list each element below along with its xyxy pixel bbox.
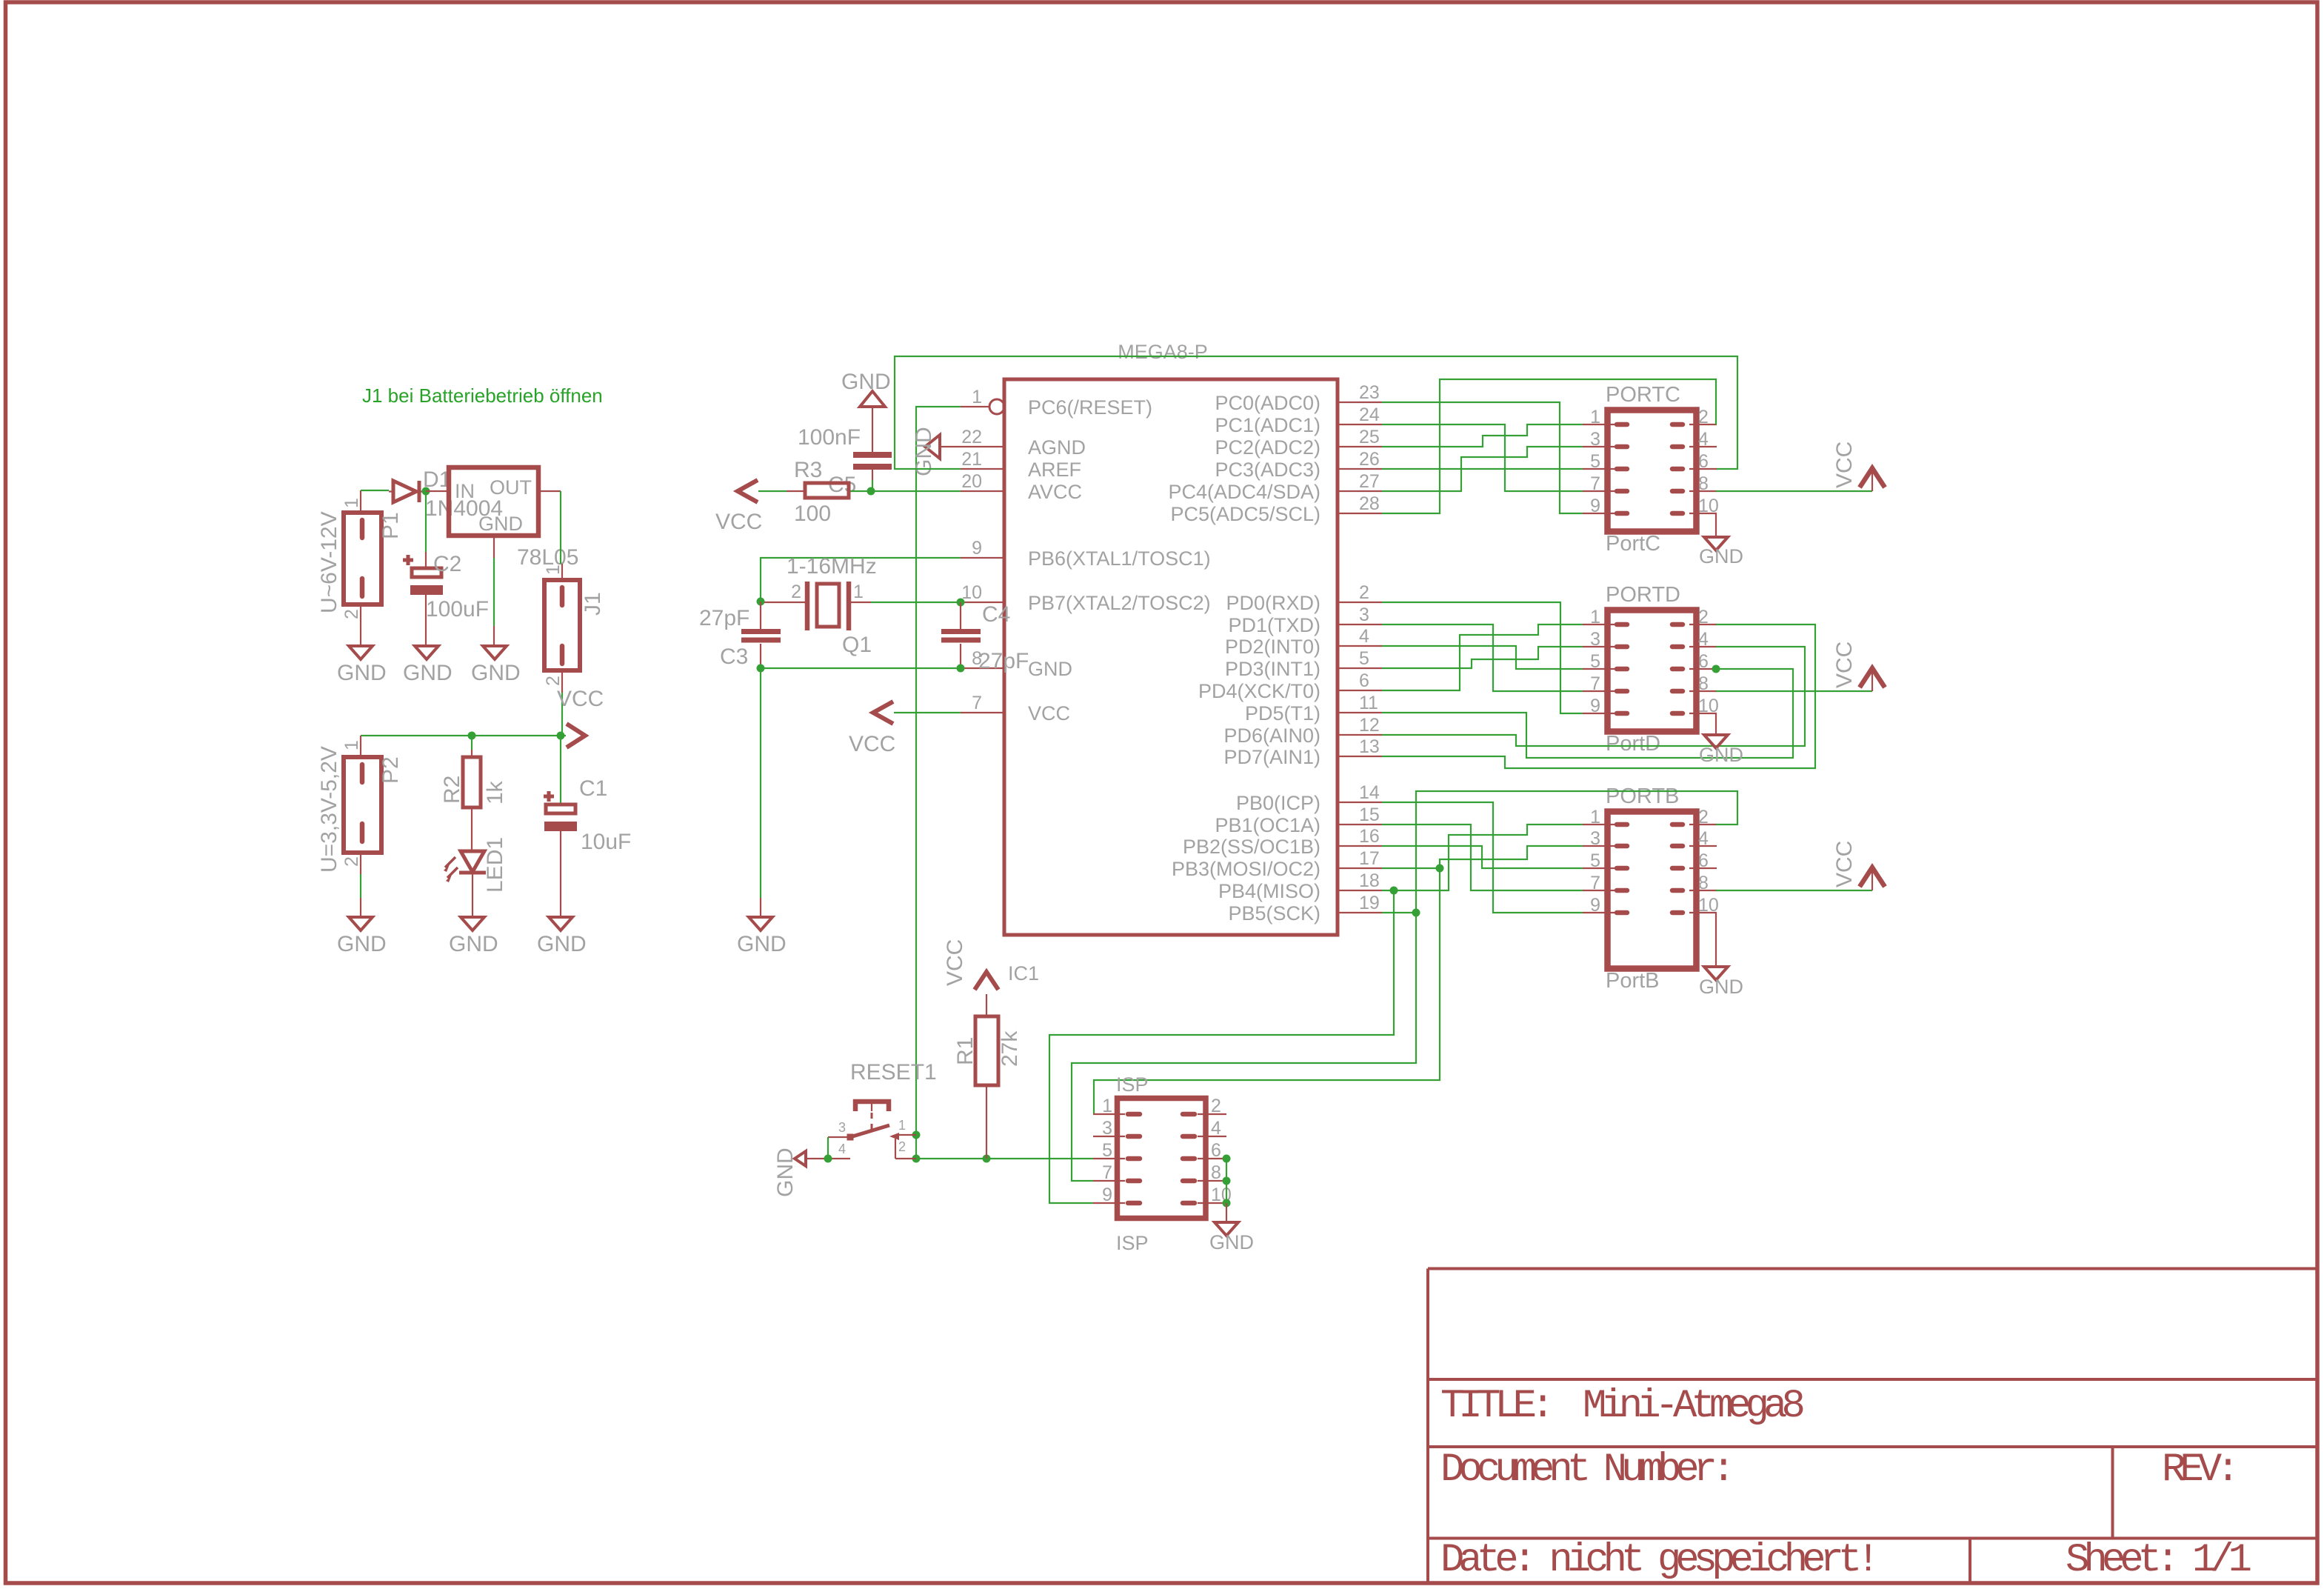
wire PORTC pin8 to VCC — [1716, 490, 1872, 492]
svg-text:7: 7 — [972, 693, 982, 713]
svg-text:PD3(INT1): PD3(INT1) — [1225, 658, 1320, 680]
wire PB5 pin19 SCK to PORTB pin2 — [1382, 791, 1737, 913]
PORTC pin 2 — [1672, 407, 1717, 427]
svg-text:AREF: AREF — [1028, 459, 1081, 481]
wire PD3 pin5 to PORTD pin3 — [1382, 647, 1583, 668]
svg-text:27: 27 — [1359, 471, 1380, 492]
svg-text:4: 4 — [1359, 626, 1369, 647]
svg-text:GND: GND — [337, 661, 387, 685]
connector PORTC body — [1608, 410, 1697, 532]
IC pin 11 PD5(T1) — [1245, 693, 1382, 724]
svg-text:ISP: ISP — [1116, 1232, 1149, 1254]
wire PD1 pin3 to PORTD pin7 — [1382, 624, 1583, 691]
svg-text:26: 26 — [1359, 449, 1380, 470]
svg-text:4: 4 — [1211, 1118, 1221, 1139]
svg-text:TITLE:: TITLE: — [1440, 1384, 1549, 1429]
svg-text:9: 9 — [1590, 696, 1600, 716]
IC pin 28 PC5(ADC5/SCL) — [1170, 493, 1382, 525]
ISP pin 2 — [1183, 1096, 1226, 1116]
svg-text:17: 17 — [1359, 848, 1380, 869]
PORTC pin 5 — [1583, 451, 1627, 472]
IC pin 21 AREF — [961, 449, 1081, 481]
ISP pin 9 — [1093, 1185, 1140, 1205]
IC pin 16 PB2(SS/OC1B) — [1183, 826, 1382, 858]
IC pin 5 PD3(INT1) — [1225, 648, 1382, 680]
junction node crystal pin2 C3 — [757, 598, 765, 606]
svg-text:10: 10 — [1698, 895, 1719, 916]
svg-text:12: 12 — [1359, 715, 1380, 736]
junction node AVCC C5 — [867, 487, 875, 496]
ground symbol GND above C5 — [841, 370, 891, 452]
svg-text:2: 2 — [1698, 807, 1709, 827]
svg-text:VCC: VCC — [943, 939, 967, 986]
IC pin 17 PB3(MOSI/OC2) — [1172, 848, 1382, 880]
PORTB pin 7 — [1583, 873, 1627, 893]
jumper J1 — [543, 564, 605, 693]
junction node reset bottom — [912, 1155, 921, 1163]
capacitor C3 27pF — [699, 602, 781, 669]
svg-text:100uF: 100uF — [426, 597, 489, 622]
svg-text:R1: R1 — [953, 1037, 978, 1065]
connector P2 — [317, 736, 403, 874]
junction node reset at switch pin1 — [912, 1131, 921, 1139]
svg-text:P2: P2 — [378, 756, 403, 784]
svg-text:27pF: 27pF — [699, 606, 749, 630]
svg-text:6: 6 — [1698, 451, 1709, 472]
svg-text:27k: 27k — [998, 1030, 1022, 1067]
svg-text:IN: IN — [455, 480, 475, 502]
IC pin 14 PB0(ICP) — [1236, 782, 1382, 814]
junction node C3 GND — [757, 664, 765, 673]
ground symbol GND at 78L05 — [471, 558, 521, 685]
ISP pin 3 — [1093, 1118, 1140, 1139]
IC U1 MEGA8-P body — [1004, 379, 1338, 935]
svg-text:J1: J1 — [581, 592, 605, 616]
svg-text:P1: P1 — [378, 512, 403, 539]
PORTC pin 6 — [1672, 451, 1717, 472]
ground symbol GND at PORTD pin10 — [1699, 713, 1743, 766]
IC pin 27 PC4(ADC4/SDA) — [1168, 471, 1382, 503]
svg-text:4: 4 — [1698, 429, 1709, 450]
ground symbol GND at AGND pin22 — [912, 427, 961, 476]
svg-text:5: 5 — [1590, 651, 1600, 672]
wire PC4 pin27 to PORTC pin3 — [1382, 447, 1583, 491]
ISP pin 10 — [1183, 1185, 1232, 1205]
resistor R2 1k — [440, 736, 507, 851]
svg-text:PD5(T1): PD5(T1) — [1245, 702, 1320, 724]
svg-text:8: 8 — [1698, 473, 1709, 494]
svg-text:5: 5 — [1359, 648, 1369, 669]
capacitor C5 100nF — [798, 425, 892, 497]
svg-text:OUT: OUT — [490, 476, 532, 499]
svg-text:PB6(XTAL1/TOSC1): PB6(XTAL1/TOSC1) — [1028, 547, 1211, 570]
PORTB pin 8 — [1672, 873, 1717, 893]
junction node R2 branch — [468, 732, 476, 740]
svg-text:11: 11 — [1359, 693, 1378, 713]
svg-text:1: 1 — [1590, 807, 1600, 827]
ground symbol GND at P2 — [337, 874, 387, 956]
svg-text:GND: GND — [337, 932, 387, 956]
svg-text:PC0(ADC0): PC0(ADC0) — [1215, 392, 1320, 414]
wire PB2 pin16 to PORTB pin5 — [1382, 846, 1583, 868]
supply arrow VCC at PORTB — [1871, 868, 1873, 890]
svg-text:PORTC: PORTC — [1606, 383, 1680, 407]
wire GND net C3 C4 IC pin8 — [761, 667, 961, 669]
PORTB pin 6 — [1672, 850, 1717, 871]
junction node SCK — [1412, 909, 1420, 917]
svg-text:PB4(MISO): PB4(MISO) — [1218, 880, 1320, 902]
IC pin 8 GND — [961, 648, 1072, 680]
PORTC pin 10 — [1672, 496, 1719, 516]
PORTC pin 9 — [1583, 496, 1627, 516]
svg-text:VCC: VCC — [1832, 442, 1857, 488]
PORTD pin 3 — [1583, 629, 1627, 650]
svg-text:Date: nicht gespeichert!: Date: nicht gespeichert! — [1440, 1538, 1874, 1583]
svg-text:7: 7 — [1590, 873, 1600, 893]
switch RESET1 — [828, 1060, 937, 1159]
svg-text:PORTB: PORTB — [1606, 784, 1679, 808]
svg-text:GND: GND — [1699, 976, 1743, 998]
wire AVCC pin20 to R3 — [849, 490, 961, 492]
svg-text:Q1: Q1 — [842, 633, 872, 657]
PORTC pin 8 — [1672, 473, 1717, 494]
ground symbol GND at ISP — [1209, 1203, 1254, 1253]
wire ISP pins 6 8 10 GND — [1226, 1159, 1227, 1203]
svg-text:5: 5 — [1590, 850, 1600, 871]
PORTB pin 3 — [1583, 828, 1627, 849]
svg-text:PC1(ADC1): PC1(ADC1) — [1215, 414, 1320, 436]
ground symbol GND below C3 — [737, 898, 787, 956]
svg-text:GND: GND — [737, 932, 787, 956]
svg-text:4: 4 — [1698, 629, 1709, 650]
resistor R3 100 — [794, 458, 849, 526]
svg-text:3: 3 — [1102, 1118, 1112, 1139]
svg-text:PB1(OC1A): PB1(OC1A) — [1215, 814, 1320, 836]
svg-text:20: 20 — [961, 471, 982, 492]
svg-text:C4: C4 — [982, 602, 1010, 627]
svg-text:C1: C1 — [579, 776, 607, 801]
wire PORTD pin8 to VCC — [1716, 690, 1872, 692]
ground symbol GND at PORTC pin10 — [1699, 513, 1743, 567]
PORTD pin 1 — [1583, 607, 1627, 627]
svg-text:Sheet: 1/1: Sheet: 1/1 — [2066, 1538, 2251, 1583]
svg-text:1: 1 — [543, 564, 564, 575]
svg-text:6: 6 — [1698, 651, 1709, 672]
ISP pin 1 — [1093, 1096, 1140, 1116]
IC pin 15 PB1(OC1A) — [1215, 805, 1382, 836]
svg-text:5: 5 — [1590, 451, 1600, 472]
wire VCC bus P2 R2 C1 — [361, 735, 566, 736]
svg-text:GND: GND — [841, 370, 891, 394]
svg-text:4: 4 — [838, 1142, 846, 1156]
wire PC3 pin26 to PORTC pin5 — [1382, 468, 1583, 470]
svg-text:8: 8 — [1698, 873, 1709, 893]
svg-text:2: 2 — [543, 676, 564, 686]
ISP pin 6 — [1183, 1140, 1226, 1161]
svg-text:U=3,3V-5,2V: U=3,3V-5,2V — [317, 746, 341, 873]
wire PC5 pin28 to PORTC pin2 — [1382, 379, 1716, 513]
ground symbol GND at RESET1 — [773, 1147, 806, 1197]
svg-text:GND: GND — [773, 1147, 798, 1197]
svg-text:R2: R2 — [440, 776, 464, 804]
svg-text:6: 6 — [1698, 850, 1709, 871]
wire PC1 pin24 to PORTC pin7 — [1382, 424, 1583, 491]
PORTB pin 1 — [1583, 807, 1627, 827]
svg-text:C2: C2 — [433, 552, 461, 576]
svg-text:GND: GND — [1028, 658, 1072, 680]
svg-text:1: 1 — [853, 582, 864, 602]
wire PC0 pin23 to PORTC pin9 — [1382, 402, 1583, 513]
IC pin 6 PD4(XCK/T0) — [1198, 670, 1382, 702]
svg-text:LED1: LED1 — [483, 837, 507, 893]
junction node reset at R1 — [983, 1155, 991, 1163]
svg-text:PD0(RXD): PD0(RXD) — [1226, 592, 1320, 614]
svg-text:16: 16 — [1359, 826, 1380, 847]
svg-text:21: 21 — [961, 449, 982, 470]
wire switch GND — [806, 1158, 828, 1159]
IC pin 7 VCC — [961, 693, 1070, 724]
svg-text:7: 7 — [1102, 1162, 1112, 1183]
svg-text:C3: C3 — [720, 644, 748, 669]
supply arrow VCC at PORTD — [1871, 669, 1873, 691]
IC pin 3 PD1(TXD) — [1228, 604, 1382, 636]
IC pin 1 PC6(/RESET) — [961, 387, 1152, 419]
IC pin 12 PD6(AIN0) — [1223, 715, 1382, 747]
svg-text:PD7(AIN1): PD7(AIN1) — [1223, 746, 1320, 768]
supply arrow VCC right — [567, 724, 585, 747]
ground symbol GND at C2 — [403, 626, 453, 685]
capacitor C1 10uF — [544, 736, 631, 898]
PORTC pin 3 — [1583, 429, 1627, 450]
PORTB pin 5 — [1583, 850, 1627, 871]
svg-text:22: 22 — [961, 427, 982, 447]
svg-text:PC4(ADC4/SDA): PC4(ADC4/SDA) — [1168, 481, 1320, 503]
IC pin 4 PD2(INT0) — [1225, 626, 1382, 658]
svg-text:PB3(MOSI/OC2): PB3(MOSI/OC2) — [1172, 858, 1320, 880]
svg-text:27pF: 27pF — [978, 649, 1029, 673]
svg-text:5: 5 — [1102, 1140, 1112, 1161]
svg-text:2: 2 — [791, 582, 801, 602]
svg-text:ISP: ISP — [1116, 1073, 1149, 1096]
svg-text:GND: GND — [1699, 545, 1743, 567]
wire PD2 pin4 to PORTD pin5 — [1382, 646, 1583, 669]
svg-text:100: 100 — [794, 502, 831, 526]
svg-text:Document Number:: Document Number: — [1440, 1448, 1729, 1493]
PORTB pin 4 — [1672, 828, 1717, 849]
IC pin 18 PB4(MISO) — [1218, 870, 1382, 902]
connector P1 — [317, 490, 403, 627]
ISP pin 5 — [1093, 1140, 1140, 1161]
svg-text:2: 2 — [341, 609, 362, 619]
svg-text:1: 1 — [1590, 607, 1600, 627]
supply arrow VCC left of R3 — [738, 480, 758, 502]
svg-text:3: 3 — [1590, 629, 1600, 650]
diode D1 — [389, 467, 503, 521]
PORTC pin 4 — [1672, 429, 1717, 450]
svg-text:GND: GND — [1209, 1231, 1254, 1253]
svg-text:8: 8 — [1698, 673, 1709, 694]
svg-text:10: 10 — [961, 582, 982, 603]
IC pin 13 PD7(AIN1) — [1223, 736, 1382, 768]
svg-text:GND: GND — [449, 932, 498, 956]
junction node crystal pin1 C4 PB7 — [957, 599, 965, 607]
wire P1 pin1 to diode D1 — [361, 490, 389, 491]
svg-text:J1 bei Batteriebetrieb öffnen: J1 bei Batteriebetrieb öffnen — [362, 384, 603, 407]
svg-text:18: 18 — [1359, 870, 1380, 891]
svg-text:3: 3 — [1359, 604, 1369, 625]
svg-text:VCC: VCC — [849, 732, 895, 756]
svg-text:9: 9 — [1102, 1185, 1112, 1205]
IC pin 19 PB5(SCK) — [1228, 893, 1382, 925]
ISP pin 8 — [1183, 1162, 1226, 1183]
wire SCK to ISP pin7 — [1072, 913, 1416, 1181]
wire AREF pin21 to PORTC pin6 top bus — [895, 356, 1737, 469]
svg-text:9: 9 — [1590, 895, 1600, 916]
IC pin 26 PC3(ADC3) — [1215, 449, 1382, 481]
svg-text:PB2(SS/OC1B): PB2(SS/OC1B) — [1183, 836, 1320, 858]
crystal Q1 — [764, 554, 877, 657]
capacitor C2 100uF — [403, 552, 489, 626]
svg-text:PC5(ADC5/SCL): PC5(ADC5/SCL) — [1170, 503, 1320, 525]
svg-text:3: 3 — [1590, 828, 1600, 849]
ground symbol GND at LED1 — [449, 898, 498, 956]
ISP pin 7 — [1093, 1162, 1140, 1183]
svg-text:VCC: VCC — [1832, 841, 1857, 887]
svg-text:1: 1 — [341, 498, 362, 508]
svg-text:PB7(XTAL2/TOSC2): PB7(XTAL2/TOSC2) — [1028, 592, 1211, 614]
svg-text:23: 23 — [1359, 382, 1380, 403]
wire PD4 pin6 to PORTD pin1 — [1382, 624, 1583, 690]
svg-text:8: 8 — [1211, 1162, 1221, 1183]
svg-text:AGND: AGND — [1028, 436, 1086, 459]
ground symbol GND at C1 — [537, 898, 587, 956]
wire node to C2 — [425, 491, 427, 552]
voltage regulator IC2 78L05 — [426, 467, 578, 570]
wire crystal pin1 to C4 and PB7 — [871, 602, 961, 603]
IC pin 22 AGND — [961, 427, 1086, 459]
svg-text:PortC: PortC — [1606, 532, 1660, 556]
svg-text:3: 3 — [1590, 429, 1600, 450]
wire PD5 pin11 to PORTD pin6 — [1382, 669, 1793, 758]
svg-text:VCC: VCC — [715, 510, 762, 534]
svg-text:PD2(INT0): PD2(INT0) — [1225, 636, 1320, 658]
svg-text:IC1: IC1 — [1008, 962, 1039, 985]
svg-text:6: 6 — [1211, 1140, 1221, 1161]
IC pin 2 PD0(RXD) — [1226, 582, 1382, 614]
supply arrow VCC above R1 — [975, 972, 998, 990]
svg-text:100nF: 100nF — [798, 425, 861, 450]
junction node C4 GND — [957, 664, 965, 673]
wire 78L05 OUT to J1 pin1 — [560, 491, 561, 564]
wire J1 pin2 to VCC node — [561, 693, 563, 736]
svg-text:13: 13 — [1359, 736, 1380, 757]
connector ISP body — [1118, 1099, 1206, 1219]
svg-text:24: 24 — [1359, 404, 1380, 425]
svg-text:28: 28 — [1359, 493, 1380, 514]
wire PD6 pin12 to PORTD pin4 — [1382, 647, 1805, 746]
svg-text:15: 15 — [1359, 805, 1380, 825]
connector PORTD body — [1608, 610, 1697, 732]
svg-text:1-16MHz: 1-16MHz — [787, 554, 877, 579]
wire PC2 pin25 to PORTC pin1 — [1382, 424, 1583, 447]
wire MOSI to ISP pin1 — [1094, 868, 1440, 1114]
svg-text:AVCC: AVCC — [1028, 481, 1082, 503]
IC pin 25 PC2(ADC2) — [1215, 427, 1382, 459]
ground symbol GND at P1 — [337, 627, 387, 685]
svg-text:PortB: PortB — [1606, 969, 1660, 993]
PORTD pin 5 — [1583, 651, 1627, 672]
junction node ISP pin8 — [1223, 1177, 1231, 1185]
PORTD pin 2 — [1672, 607, 1717, 627]
PORTD pin 10 — [1672, 696, 1719, 716]
LED LED1 — [444, 837, 507, 898]
svg-text:1: 1 — [1590, 407, 1600, 427]
svg-text:1: 1 — [898, 1118, 906, 1133]
svg-text:14: 14 — [1359, 782, 1380, 803]
svg-text:1: 1 — [1102, 1096, 1112, 1116]
wire XTAL1 PB6 to crystal and C3 — [761, 558, 961, 602]
svg-text:PORTD: PORTD — [1606, 583, 1680, 607]
svg-text:10uF: 10uF — [581, 830, 631, 854]
svg-text:19: 19 — [1359, 893, 1380, 913]
junction node switch GND — [824, 1155, 832, 1163]
wire PD7 pin13 to PORTD pin2 — [1382, 624, 1815, 768]
PORTB pin 10 — [1672, 895, 1719, 916]
junction node VCC J1 — [557, 732, 565, 740]
svg-text:PC2(ADC2): PC2(ADC2) — [1215, 436, 1320, 459]
svg-text:VCC: VCC — [1832, 642, 1857, 688]
svg-text:PD6(AIN0): PD6(AIN0) — [1223, 724, 1320, 747]
PORTD pin 6 — [1672, 651, 1717, 672]
PORTD pin 4 — [1672, 629, 1717, 650]
supply arrow VCC left at pin7 — [873, 702, 893, 724]
svg-text:25: 25 — [1359, 427, 1380, 447]
ground symbol GND at PORTB pin10 — [1699, 913, 1743, 998]
svg-text:9: 9 — [1590, 496, 1600, 516]
junction node ISP pin10 — [1223, 1199, 1231, 1207]
svg-text:GND: GND — [1699, 744, 1743, 766]
svg-text:PD1(TXD): PD1(TXD) — [1228, 614, 1320, 636]
svg-text:7: 7 — [1590, 473, 1600, 494]
svg-text:PD4(XCK/T0): PD4(XCK/T0) — [1198, 680, 1320, 702]
wire PB1 pin15 to PORTB pin7 — [1382, 825, 1583, 890]
svg-text:4: 4 — [1698, 828, 1709, 849]
wire PB0 pin14 to PORTB pin9 — [1382, 802, 1583, 913]
svg-text:PC6(/RESET): PC6(/RESET) — [1028, 396, 1152, 419]
IC pin 23 PC0(ADC0) — [1215, 382, 1382, 414]
svg-text:RESET1: RESET1 — [850, 1060, 937, 1085]
svg-text:2: 2 — [1359, 582, 1369, 603]
wire VCC pin7 — [894, 712, 961, 713]
svg-text:2: 2 — [1698, 407, 1709, 427]
IC pin 24 PC1(ADC1) — [1215, 404, 1382, 436]
svg-text:1: 1 — [341, 740, 362, 750]
capacitor C4 27pF — [941, 602, 1029, 673]
svg-text:9: 9 — [972, 538, 982, 559]
svg-text:U~6V-12V: U~6V-12V — [317, 511, 341, 613]
svg-text:10: 10 — [1698, 696, 1719, 716]
wire PORTB pin8 to VCC — [1716, 890, 1872, 891]
svg-text:R3: R3 — [794, 458, 822, 482]
wire R3 to VCC arrow — [758, 490, 787, 492]
IC pin 9 PB6(XTAL1/TOSC1) — [961, 538, 1211, 570]
wire reset net PC6 to switch and R1 — [916, 407, 1093, 1159]
PORTC pin 1 — [1583, 407, 1627, 427]
connector PORTB body — [1608, 812, 1697, 969]
svg-text:2: 2 — [1698, 607, 1709, 627]
PORTD pin 8 — [1672, 673, 1717, 694]
junction node MOSI — [1436, 865, 1444, 873]
